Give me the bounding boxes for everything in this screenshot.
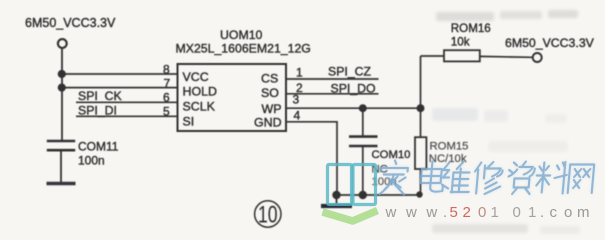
IC U0M10 box (178, 64, 287, 131)
svg-text:w: w (425, 204, 437, 221)
svg-text:GND: GND (254, 116, 282, 130)
ground bar (COM11) (47, 182, 76, 185)
svg-text:1: 1 (528, 204, 536, 221)
svg-text:SPI_CK: SPI_CK (78, 89, 123, 103)
svg-text:0: 0 (478, 204, 486, 221)
svg-text:2: 2 (463, 204, 471, 221)
capacitor COM11 (47, 141, 75, 183)
char 家 (379, 161, 409, 195)
svg-text:10k: 10k (451, 35, 470, 48)
svg-text:COM11: COM11 (78, 140, 119, 154)
svg-text:SO: SO (261, 86, 279, 100)
ground symbol (main) (336, 195, 338, 205)
svg-text:ROM16: ROM16 (451, 22, 491, 35)
svg-text:CS: CS (261, 72, 278, 86)
junction dot WP/COM10 (359, 104, 367, 112)
svg-text:SI: SI (183, 115, 195, 129)
svg-text:VCC: VCC (183, 70, 209, 84)
svg-text:6M50_VCC3.3V: 6M50_VCC3.3V (25, 16, 116, 30)
wire: left VCC vertical rail (61, 48, 63, 141)
scan ghost marks middle right (432, 108, 568, 152)
svg-text:6M50_VCC3.3V: 6M50_VCC3.3V (505, 36, 595, 50)
svg-text:o: o (564, 204, 572, 221)
scan ghost marks top right (436, 10, 578, 21)
svg-text:COM10: COM10 (372, 149, 411, 161)
svg-text:SCLK: SCLK (183, 100, 216, 114)
svg-text:10: 10 (258, 202, 278, 229)
svg-text:c: c (550, 204, 558, 221)
junction dot WP/ROM15 (417, 104, 425, 112)
svg-text:HOLD: HOLD (183, 85, 217, 99)
scan ghost marks bottom (432, 224, 580, 234)
svg-text:0: 0 (513, 204, 521, 221)
wire: pin 6 SCLK (76, 101, 178, 103)
sheet number circle 10 (255, 201, 281, 227)
svg-text:8: 8 (163, 63, 170, 77)
svg-text:5: 5 (163, 104, 170, 118)
svg-text:m: m (577, 204, 590, 221)
svg-text:w: w (405, 204, 417, 221)
svg-text:WP: WP (262, 102, 282, 116)
char 料 (535, 162, 568, 194)
junction dot on pin 8 wire (58, 70, 66, 78)
svg-text:SPI_CZ: SPI_CZ (328, 65, 372, 79)
svg-text:1: 1 (296, 66, 303, 80)
char 电 (420, 162, 445, 192)
wire: pin 2 SO (286, 93, 379, 95)
svg-text:SPI_DO: SPI_DO (331, 82, 376, 96)
junction dot GND rail / ROM15 (416, 191, 422, 197)
wire: pin 7 HOLD (62, 87, 178, 89)
char 网 (568, 165, 594, 194)
watermark Chinese characters 家电维修资料网 (379, 161, 595, 195)
wire: ground rail (337, 194, 421, 196)
wire: pin 4 GND down to ground rail (286, 122, 337, 195)
svg-text:6: 6 (163, 91, 170, 105)
watermark group (323, 10, 595, 234)
junction dot GND rail / pin4 (332, 191, 340, 199)
svg-text:ROM15: ROM15 (430, 140, 469, 152)
svg-text:.: . (443, 204, 447, 221)
char 维 (441, 162, 471, 193)
wire: pin 5 SI (76, 115, 178, 117)
watermark logo: open book right page (353, 165, 376, 205)
junction dot on pin 7 wire (58, 84, 66, 92)
wire: pin 8 VCC (62, 73, 178, 75)
svg-text:MX25L_1606EM21_12G: MX25L_1606EM21_12G (176, 42, 311, 56)
char 资 (507, 162, 535, 195)
svg-text:7: 7 (164, 76, 171, 90)
junction dot GND rail / COM10 (359, 191, 367, 199)
svg-text:100n: 100n (78, 153, 105, 167)
watermark url www.520101.com (385, 204, 590, 221)
wire: pin 3 WP (286, 107, 421, 109)
svg-text:4: 4 (294, 108, 301, 122)
watermark logo: green ribbon (323, 211, 378, 222)
svg-text:w: w (385, 204, 397, 221)
svg-text:.: . (540, 204, 544, 221)
power terminal (right) (533, 53, 542, 62)
power terminal (left) (58, 39, 67, 48)
capacitor COM10 (349, 108, 378, 195)
svg-text:SPI_DI: SPI_DI (78, 103, 117, 117)
svg-text:1: 1 (491, 204, 499, 221)
svg-text:3: 3 (293, 92, 300, 106)
svg-text:5: 5 (450, 204, 458, 221)
watermark logo: open book left page (328, 165, 352, 205)
resistor ROM15 (415, 108, 426, 195)
char 修 (473, 162, 503, 194)
resistor ROM16 (421, 50, 533, 108)
wire: pin 1 CS (286, 78, 379, 80)
svg-text:UOM10: UOM10 (220, 28, 263, 42)
